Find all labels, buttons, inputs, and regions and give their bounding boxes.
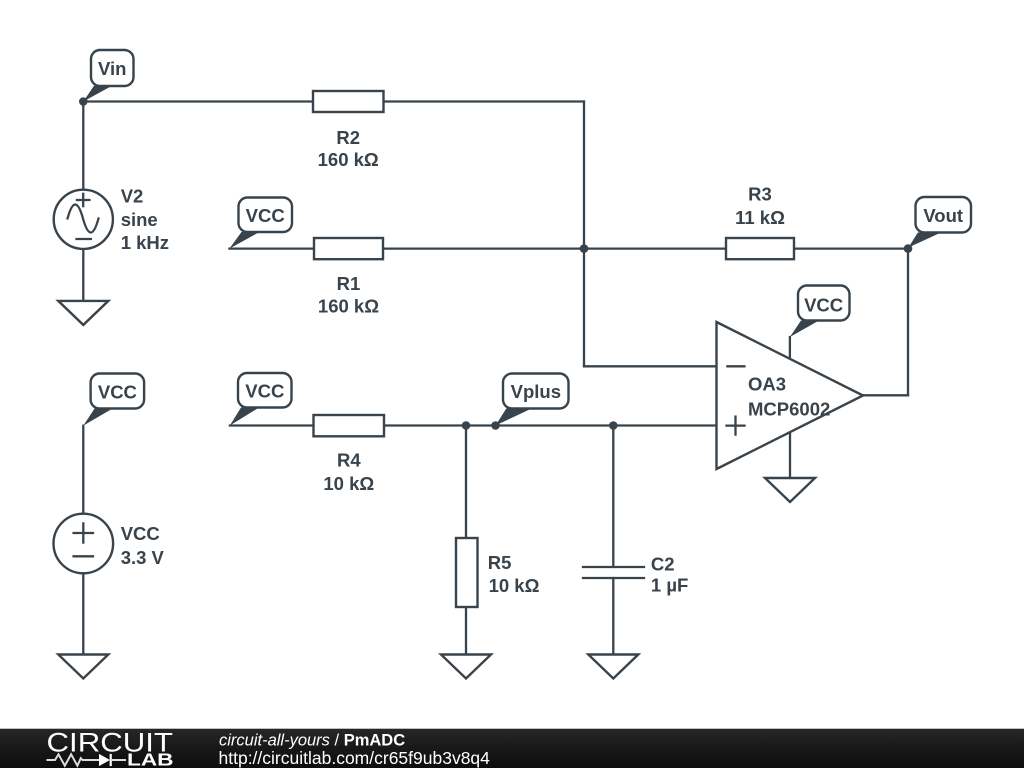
svg-text:R2: R2 [336, 127, 360, 148]
footer url [219, 748, 491, 768]
wire Vin node down to V2 top [82, 102, 84, 190]
svg-text:LAB: LAB [127, 749, 174, 768]
footer title circuit-all-yours / PmADC [219, 732, 405, 750]
wire VCC tail to R1 [229, 247, 314, 249]
wire Vout node down [907, 249, 909, 396]
resistor R2 [313, 91, 384, 170]
footer bar [0, 729, 1024, 768]
svg-text:VCC: VCC [245, 380, 284, 401]
svg-text:R3: R3 [748, 183, 772, 204]
svg-text:3.3 V: 3.3 V [121, 547, 165, 568]
net label VCC at source [83, 374, 144, 426]
resistor R1 [314, 238, 383, 316]
ground below VCC source [58, 655, 108, 679]
capacitor C2 [583, 553, 688, 595]
junction dot C2 tap [609, 421, 618, 430]
wire V2 bottom to ground [82, 249, 84, 301]
svg-text:R4: R4 [337, 449, 361, 470]
net label Vplus [496, 374, 569, 426]
svg-text:VCC: VCC [98, 381, 137, 402]
svg-text:1 µF: 1 µF [651, 575, 688, 596]
svg-text:OA3: OA3 [748, 373, 786, 394]
wire Vplus node down to R5 [465, 426, 467, 539]
svg-text:V2: V2 [121, 185, 144, 206]
wire R3 to Vout node [794, 247, 908, 249]
junction dot node Vout [904, 244, 913, 253]
svg-text:R5: R5 [488, 552, 512, 573]
wire vertical column x584 down to inverting input level [583, 102, 585, 367]
op-amp OA3 MCP6002 [717, 322, 864, 469]
ground below C2 [588, 655, 638, 679]
svg-text:11 kΩ: 11 kΩ [735, 207, 785, 228]
junction dot node Vin [79, 97, 88, 106]
svg-text:10 kΩ: 10 kΩ [489, 575, 540, 596]
svg-text:VCC: VCC [121, 523, 160, 544]
junction dot node Vplus [491, 421, 500, 430]
net label VCC at R4 [230, 373, 292, 426]
svg-text:Vout: Vout [923, 205, 963, 226]
wire to op-amp inverting input [584, 365, 717, 367]
junction dot R5 tap [462, 421, 471, 430]
wire C2 bottom to ground [612, 578, 614, 655]
wire op-amp ground pin [789, 432, 791, 478]
net label Vout [909, 197, 972, 248]
voltage source VCC 3.3V [54, 514, 165, 574]
resistor R3 [726, 183, 794, 259]
svg-text:VCC: VCC [804, 294, 843, 315]
resistor R5 [456, 538, 540, 607]
svg-text:Vplus: Vplus [511, 381, 561, 402]
ground below V2 [58, 301, 108, 325]
ground below R5 [441, 655, 491, 679]
wire Vin node to R2 [83, 100, 313, 102]
svg-text:160 kΩ: 160 kΩ [318, 295, 379, 316]
CircuitLab logo resistor-diode glyph [47, 754, 127, 766]
wire R2 to vertical feedback column [384, 100, 585, 102]
wire VCC source bottom to ground [82, 573, 84, 654]
svg-text:160 kΩ: 160 kΩ [318, 149, 379, 170]
svg-text:VCC: VCC [246, 205, 285, 226]
net label VCC at op-amp [790, 286, 850, 338]
net label Vin [83, 50, 133, 102]
voltage source V2 [54, 185, 169, 253]
wire VCC label tail down to VCC source [82, 426, 84, 514]
junction dot feedback node [580, 244, 589, 253]
svg-text:MCP6002: MCP6002 [748, 398, 830, 419]
svg-text:10 kΩ: 10 kΩ [323, 473, 374, 494]
wire R1 to R3 through node [383, 247, 726, 249]
svg-text:circuit-all-yours / PmADC: circuit-all-yours / PmADC [219, 732, 405, 750]
wire node to C2 top [612, 426, 614, 568]
wire op-amp VCC pin stub [789, 337, 791, 359]
svg-text:http://circuitlab.com/cr65f9ub: http://circuitlab.com/cr65f9ub3v8q4 [219, 748, 491, 768]
CircuitLab logo wordmark LAB [127, 749, 174, 768]
resistor R4 [314, 415, 385, 494]
svg-text:1 kHz: 1 kHz [121, 232, 169, 253]
wire R5 to ground [465, 607, 467, 655]
wire VCC tail to R4 [230, 424, 314, 426]
wire op-amp output [863, 394, 908, 396]
svg-text:C2: C2 [651, 553, 675, 574]
net label VCC at R1 [229, 198, 292, 249]
svg-text:Vin: Vin [98, 58, 126, 79]
ground below op-amp [765, 478, 815, 502]
wire R4 to op-amp non-inverting input [384, 424, 717, 426]
svg-text:sine: sine [121, 209, 158, 230]
CircuitLab logo wordmark CIRCUIT [47, 727, 174, 757]
svg-text:R1: R1 [337, 273, 361, 294]
